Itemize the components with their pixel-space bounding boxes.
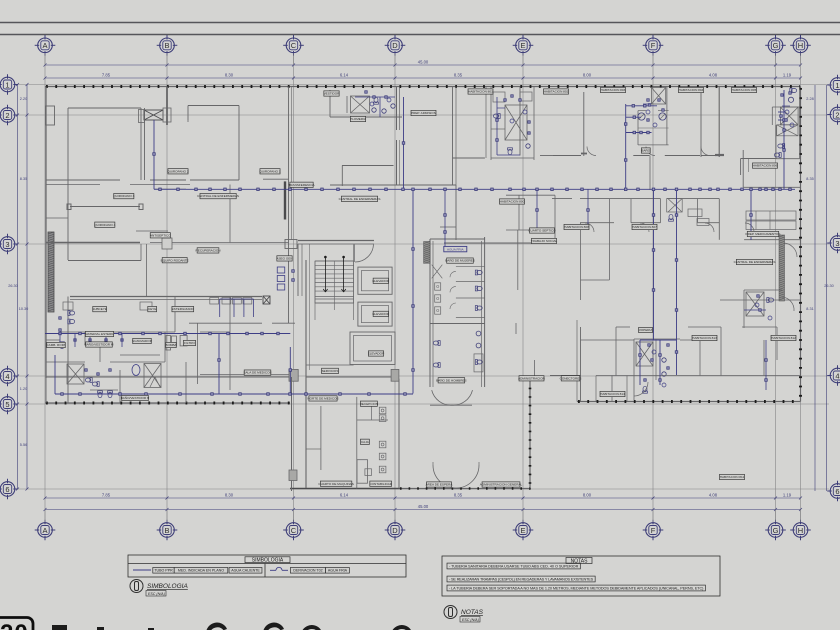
svg-text:8.30: 8.30	[225, 493, 234, 498]
svg-text:QUIROFANO 1: QUIROFANO 1	[259, 169, 280, 173]
row4 walls right	[550, 375, 581, 377]
lower right rooms outlines	[608, 199, 610, 280]
svg-text:AGUA CALIENTE: AGUA CALIENTE	[231, 569, 260, 573]
room label CONTABILIDAD	[369, 481, 392, 486]
grid bubble B top	[157, 35, 178, 56]
svg-text:QUIROFANO 3: QUIROFANO 3	[113, 194, 134, 198]
svg-text:TRABAJO SOCIAL: TRABAJO SOCIAL	[531, 239, 558, 243]
room label RECUPERACION	[196, 248, 221, 253]
svg-text:20: 20	[0, 620, 29, 630]
room label TRANSFERENCIA	[288, 182, 315, 187]
svg-text:HABITACION 802: HABITACION 802	[544, 90, 569, 94]
room label AREA DE ESPERA	[426, 482, 454, 487]
vestidor / plomeria rooms	[329, 90, 331, 117]
svg-text:A: A	[42, 526, 47, 535]
corridor walls center	[298, 240, 374, 242]
room label BAÑO/VESTIDOR M	[85, 342, 114, 348]
showers	[67, 364, 84, 384]
grid bubble E top	[513, 35, 534, 56]
habitacion 800 room	[506, 194, 555, 196]
reception chairs	[379, 407, 386, 414]
svg-text:1.19: 1.19	[783, 493, 792, 498]
svg-text:45.00: 45.00	[418, 60, 429, 65]
svg-text:F: F	[651, 526, 656, 535]
svg-text:6: 6	[5, 485, 9, 494]
svg-text:SALA DE MEDICOS: SALA DE MEDICOS	[243, 371, 271, 375]
room label HABITACION 805	[732, 87, 757, 92]
svg-text:BAÑO DE MUJERES: BAÑO DE MUJERES	[445, 258, 475, 263]
svg-text:ADMINISTRACION GENERAL: ADMINISTRACION GENERAL	[480, 483, 523, 487]
svg-text:HABITACION 800: HABITACION 800	[500, 200, 525, 204]
men stalls	[433, 341, 440, 346]
top border line 1	[0, 22, 840, 24]
right wing top rooms south walls	[540, 155, 552, 157]
svg-text:F: F	[651, 41, 656, 50]
vestibule walls	[452, 87, 454, 186]
room label VESTIDOR	[324, 91, 341, 96]
svg-text:EQUIPO RODANTE: EQUIPO RODANTE	[161, 258, 189, 262]
svg-text:CEYE: CEYE	[148, 307, 156, 311]
svg-text:SIMBOLOGIA: SIMBOLOGIA	[252, 558, 284, 564]
hatched wall right wing	[779, 235, 785, 301]
grid bubble A top	[35, 35, 56, 56]
right wing rooms north wall y=198.6	[552, 198, 572, 200]
door arcs at bottom of toilets	[432, 390, 452, 405]
grid bubble row 4 left	[0, 366, 18, 387]
room label TRABAJO SOCIAL	[531, 238, 558, 243]
stall door arcs	[450, 271, 456, 277]
room label BAÑO DE MUJERES	[445, 258, 475, 264]
room label CEYE	[148, 306, 157, 311]
room label BOMBA	[165, 342, 177, 347]
extra bathroom blue bits	[370, 98, 794, 387]
svg-text:2.20: 2.20	[20, 97, 27, 101]
grid bubble row 2 right	[827, 104, 840, 125]
room label FILTRO	[183, 340, 195, 345]
title badge bottom-left	[0, 618, 33, 630]
toilet block walls	[429, 239, 431, 387]
svg-text:SUBCEYE: SUBCEYE	[92, 307, 107, 311]
svg-text:QUIROFANO 2: QUIROFANO 2	[167, 169, 188, 173]
room label HABITACION 811	[720, 474, 745, 479]
svg-text:CUARTO DE MAQUINAS: CUARTO DE MAQUINAS	[318, 482, 353, 486]
svg-text:2.28: 2.28	[806, 97, 813, 101]
room label QUIROFANO 3	[113, 193, 134, 198]
svg-text:E: E	[520, 41, 525, 50]
riser symbols	[153, 153, 156, 156]
locker row	[210, 298, 219, 305]
room label QUIROFANO 1	[259, 169, 280, 174]
left wing: quirofano block	[46, 106, 55, 125]
svg-text:4: 4	[5, 372, 9, 381]
pipe symbols along corridor	[159, 188, 162, 191]
svg-text:CUARTO SEPTICO: CUARTO SEPTICO	[528, 229, 556, 233]
room label HABITACION 813	[692, 335, 717, 340]
svg-text:45.00: 45.00	[418, 504, 429, 509]
svg-text:CAMB. ROPA: CAMB. ROPA	[46, 343, 66, 347]
grid bubble E bottom	[513, 520, 534, 541]
grid bubble row 6 right	[827, 481, 840, 502]
svg-text:8.30: 8.30	[225, 73, 234, 78]
left wall hatched strip	[48, 232, 54, 312]
807/808 bathroom bits	[667, 199, 683, 212]
grid bubble row 1 right	[827, 75, 840, 96]
svg-text:C: C	[291, 526, 297, 535]
svg-text:QUIROFANO 4: QUIROFANO 4	[94, 223, 115, 227]
svg-text:TRANSFERENCIA: TRANSFERENCIA	[288, 183, 315, 187]
svg-text:HABITACION 806: HABITACION 806	[753, 164, 778, 168]
grid bubble row 1 left	[0, 74, 18, 95]
svg-text:2: 2	[835, 110, 839, 119]
admin double door arcs	[433, 465, 456, 488]
svg-text:ELEVADOR: ELEVADOR	[368, 352, 385, 356]
svg-text:CENTRAL DE ENFERMERAS: CENTRAL DE ENFERMERAS	[734, 260, 776, 264]
svg-text:HABITACION 807: HABITACION 807	[632, 225, 657, 229]
svg-text:4: 4	[835, 371, 839, 380]
svg-text:2: 2	[5, 111, 9, 120]
room label SUBCEYE	[92, 306, 107, 311]
svg-text:HABITACION 805: HABITACION 805	[732, 88, 757, 92]
svg-text:8.35: 8.35	[20, 177, 27, 181]
room label NORTE DE MEDICOS	[307, 396, 338, 401]
room label ROPERIA	[639, 327, 654, 332]
svg-text:ESTERILIZADO: ESTERILIZADO	[172, 307, 195, 311]
svg-text:CENTRAL DE ENFERMERAS: CENTRAL DE ENFERMERAS	[197, 194, 239, 198]
svg-text:1: 1	[5, 80, 9, 89]
room label SALA DE MEDICOS	[243, 370, 271, 375]
svg-text:BOMBA: BOMBA	[165, 343, 177, 347]
room label CAJA	[360, 439, 369, 444]
svg-text:HABITACION 803: HABITACION 803	[601, 88, 626, 92]
stair arrows	[323, 256, 346, 292]
svg-text:3: 3	[5, 240, 9, 249]
room label HABITACION 812	[771, 335, 796, 340]
svg-text:BAÑO/VESTIDOR H: BAÑO/VESTIDOR H	[121, 395, 150, 400]
svg-text:ASEO GEN: ASEO GEN	[276, 257, 292, 261]
grid bubble G top	[765, 35, 786, 56]
svg-text:RECUPERACION: RECUPERACION	[196, 249, 221, 253]
svg-text:H: H	[798, 41, 803, 50]
left wing bottom wall (row5, ticked)	[45, 402, 290, 404]
center block west wall	[291, 377, 293, 491]
grid bubble B bottom	[157, 520, 178, 541]
door arc into stairs	[355, 245, 374, 263]
giant title glyph tops (cut off)	[52, 623, 411, 630]
main corridor pipe	[45, 90, 795, 394]
hab 805/806 bathroom	[771, 107, 773, 125]
svg-text:HABITACION 814: HABITACION 814	[600, 392, 625, 396]
right wing room dividers	[583, 92, 585, 156]
svg-text:DERIVACION T02: DERIVACION T02	[293, 569, 322, 573]
svg-text:SIMBOLOGIA: SIMBOLOGIA	[147, 583, 188, 590]
room label CAMB. ROPA	[46, 342, 66, 347]
svg-text:AREA DE ESPERA: AREA DE ESPERA	[426, 483, 454, 487]
svg-text:6.14: 6.14	[340, 493, 349, 498]
svg-text:5: 5	[5, 400, 9, 409]
svg-text:BAÑO: BAÑO	[641, 148, 650, 153]
right wing lower room dividers y290-401	[580, 327, 582, 402]
svg-text:RECEPCION: RECEPCION	[360, 402, 378, 406]
svg-text:G: G	[773, 41, 779, 50]
room label BAÑO/VESTIDOR H	[121, 395, 150, 401]
elevator labels	[372, 278, 389, 283]
svg-text:HABITACION 811: HABITACION 811	[720, 475, 745, 479]
right wing bottom wall (row5, ticked)	[577, 401, 801, 403]
svg-text:ELEVADOR: ELEVADOR	[372, 312, 389, 316]
svg-text:3: 3	[835, 239, 839, 248]
room label CONECTORES	[560, 376, 582, 381]
service band south wall	[189, 322, 262, 324]
svg-text:26.30: 26.30	[824, 284, 834, 288]
patient room door arcs top band	[587, 147, 596, 156]
grid bubble row 5 left	[0, 394, 18, 415]
grid bubble F bottom	[643, 520, 664, 541]
service band north wall	[70, 296, 262, 298]
svg-text:CENTRAL DE ENFERMERAS: CENTRAL DE ENFERMERAS	[339, 197, 381, 201]
svg-text:TUBO PPR: TUBO PPR	[154, 569, 173, 573]
svg-text:ELEVADOR: ELEVADOR	[372, 279, 389, 283]
svg-text:VESTIDOR: VESTIDOR	[324, 92, 341, 96]
svg-text:AGUA FRIA: AGUA FRIA	[447, 248, 464, 252]
svg-text:- SE REALIZARAN TRAMPAS (CESPO: - SE REALIZARAN TRAMPAS (CESPOL) EN REGA…	[449, 578, 594, 582]
women stalls	[432, 265, 485, 318]
room label HABITACION 814	[600, 391, 625, 396]
room label ADMINISTRACION GENERAL	[480, 482, 523, 487]
room label ANTISEPTICO	[150, 233, 171, 238]
hab 801/802 bathroom	[490, 87, 492, 161]
right lower bathroom cluster (813/814)	[634, 338, 680, 340]
servicios room	[306, 364, 354, 366]
svg-text:E: E	[520, 526, 525, 535]
room label CENTRAL DE ENFERMERAS	[734, 259, 776, 264]
svg-text:7.85: 7.85	[102, 73, 111, 78]
room label CENTRAL DE ENFERMERAS	[339, 196, 381, 201]
svg-text:MED. INDICADA EN PLANO: MED. INDICADA EN PLANO	[178, 569, 224, 573]
svg-text:CAJA: CAJA	[361, 440, 370, 444]
room label HABITACION 807	[632, 224, 657, 229]
room label SUAVIZADOR	[132, 338, 153, 343]
svg-text:HABITACION 801: HABITACION 801	[468, 90, 493, 94]
svg-text:8.35: 8.35	[454, 493, 463, 498]
elevators	[358, 267, 392, 294]
grid bubble G bottom	[765, 520, 786, 541]
pipe symbols left band	[59, 332, 62, 335]
svg-text:MATERIAL ESTERIL: MATERIAL ESTERIL	[85, 332, 114, 336]
caja desk	[357, 460, 368, 484]
grid bubble A bottom	[35, 520, 56, 541]
stairwell	[315, 245, 354, 321]
right wing inner wall y=222.7	[580, 222, 614, 224]
svg-text:1: 1	[835, 81, 839, 90]
room label HABITACION 802	[544, 89, 569, 94]
svg-text:PREP. MEDICAMENTOS: PREP. MEDICAMENTOS	[746, 232, 781, 236]
room label HABITACION 804	[679, 87, 704, 92]
svg-text:NORTE DE MEDICOS: NORTE DE MEDICOS	[307, 397, 338, 401]
svg-text:- LA TUBERIA DEBERA SER SOPORT: - LA TUBERIA DEBERA SER SOPORTADA A NO M…	[449, 587, 704, 591]
room label BAÑO	[641, 148, 650, 154]
room label CUARTO SEPTICO	[528, 228, 556, 233]
left exterior wall	[45, 87, 47, 379]
secondary pipes	[220, 97, 766, 390]
grid bubble D bottom	[385, 520, 406, 541]
room 801 divider	[519, 87, 521, 156]
center block bottom wall	[290, 488, 400, 490]
svg-text:1.20: 1.20	[20, 387, 27, 391]
svg-text:B: B	[164, 526, 169, 535]
room label RECEPCION	[360, 401, 378, 406]
notas marker	[444, 606, 457, 619]
room label SERVICIOS	[322, 368, 339, 373]
grid bubble F top	[643, 35, 664, 56]
room label PREP. MEDICAMENTOS	[746, 231, 781, 236]
blue agua label	[444, 246, 467, 251]
room label QUIROFANO 2	[167, 169, 188, 174]
row grid lines	[16, 85, 829, 490]
divider men/women	[430, 323, 485, 325]
svg-text:ESC (N/A): ESC (N/A)	[462, 618, 479, 622]
center-east wall vertical ticked	[529, 378, 531, 489]
room label BAÑO DE HOMBRES	[436, 377, 466, 383]
grid bubble H bottom	[790, 520, 811, 541]
svg-text:BAÑO DE HOMBRES: BAÑO DE HOMBRES	[436, 377, 466, 382]
grid bubble C bottom	[283, 520, 304, 541]
dimension values	[8, 60, 834, 510]
right mid bathroom (815)	[744, 289, 782, 291]
svg-text:1.19: 1.19	[783, 73, 792, 78]
room label PREP. ADMISION	[411, 110, 436, 115]
svg-text:CONTABILIDAD: CONTABILIDAD	[369, 482, 392, 486]
anteroom walls	[342, 165, 394, 167]
svg-text:B: B	[164, 41, 169, 50]
dimension chains	[16, 64, 827, 512]
svg-text:HABITACION 808: HABITACION 808	[564, 225, 589, 229]
medical gases cluster	[277, 267, 285, 273]
room label PLOMERIA	[350, 116, 367, 121]
svg-text:HABITACION 812: HABITACION 812	[771, 336, 796, 340]
room label ADMINISTRACION	[518, 376, 545, 381]
svg-text:8.35: 8.35	[806, 177, 813, 181]
corridor south (center-right) walls	[455, 185, 457, 240]
top border line 2	[0, 34, 840, 36]
bottom row north walls right wing	[616, 326, 630, 328]
room label CUARTO DE MAQUINAS	[318, 481, 353, 486]
svg-text:HABITACION 813: HABITACION 813	[692, 336, 717, 340]
svg-text:PREP. ADMISION: PREP. ADMISION	[411, 111, 436, 115]
right exterior wall (ticked)	[800, 87, 802, 402]
room label HABITACION 800	[500, 199, 525, 204]
room label CENTRAL DE ENFERMERAS	[197, 193, 239, 198]
column grid lines	[45, 53, 801, 522]
svg-text:6: 6	[835, 487, 839, 496]
svg-text:ESC (N/A): ESC (N/A)	[148, 592, 165, 596]
small rooms ropa/filtro	[688, 209, 702, 217]
water equipment	[166, 336, 171, 351]
grid bubble row 4 right	[827, 365, 840, 386]
svg-text:FILTRO: FILTRO	[184, 341, 195, 345]
room label ESTERILIZADO	[172, 306, 195, 311]
svg-text:- TUBERIA SANITARIA DEBERA USA: - TUBERIA SANITARIA DEBERA USARSE TUBO A…	[449, 565, 579, 569]
svg-text:26.30: 26.30	[8, 284, 18, 288]
prep medicamentos counters	[746, 211, 796, 220]
svg-text:8.00: 8.00	[583, 493, 592, 498]
svg-text:PLOMERIA: PLOMERIA	[350, 117, 367, 121]
room label HABITACION 801	[468, 89, 493, 94]
reception room	[356, 397, 358, 489]
room label EQUIPO RODANTE	[161, 258, 189, 263]
grid bubble H top	[790, 35, 811, 56]
room 806 walls	[649, 156, 651, 191]
svg-text:BAÑO/VESTIDOR M: BAÑO/VESTIDOR M	[85, 342, 114, 347]
top exterior wall	[45, 86, 801, 88]
corridor wall at E	[517, 230, 519, 290]
notas legend box	[442, 556, 720, 596]
svg-text:4.08: 4.08	[709, 73, 718, 78]
room label MATERIAL ESTERIL	[85, 331, 114, 336]
lavatory row left	[60, 334, 122, 348]
svg-text:8.00: 8.00	[583, 73, 592, 78]
corridor north wall (center)	[330, 184, 456, 186]
room label ASEO GEN	[276, 256, 292, 261]
svg-text:CONECTORES: CONECTORES	[560, 376, 582, 380]
grid bubble row 6 left	[0, 479, 18, 500]
hab 803/804 bathroom	[637, 111, 639, 145]
blue fixture cluster boxes (bathrooms)	[373, 96, 375, 98]
grid bubble C top	[283, 35, 304, 56]
grid bubble D top	[385, 35, 406, 56]
svg-text:7.85: 7.85	[102, 493, 111, 498]
bone divider	[67, 204, 143, 210]
svg-text:H: H	[798, 526, 803, 535]
simbologia legend box	[128, 555, 406, 577]
svg-text:10.30: 10.30	[19, 307, 29, 311]
derivation symbol	[270, 567, 288, 570]
svg-text:ROPERIA: ROPERIA	[639, 328, 654, 332]
svg-text:5.56: 5.56	[20, 443, 27, 447]
transfer hatch box	[144, 110, 163, 120]
left wing row4 wall	[46, 376, 290, 378]
svg-text:D: D	[392, 526, 398, 535]
room label HABITACION 808	[564, 224, 589, 229]
grid bubble row 3 right	[827, 233, 840, 254]
svg-text:ADMINISTRACION: ADMINISTRACION	[518, 376, 545, 380]
svg-text:4.08: 4.08	[709, 493, 718, 498]
room label HABITACION 806	[753, 163, 778, 168]
svg-text:6.14: 6.14	[340, 73, 349, 78]
svg-text:HABITACION 804: HABITACION 804	[679, 88, 704, 92]
svg-text:SERVICIOS: SERVICIOS	[322, 369, 339, 373]
svg-text:D: D	[392, 41, 398, 50]
grid bubble row 3 left	[0, 234, 18, 255]
room label QUIROFANO 4	[94, 222, 115, 227]
svg-text:8.35: 8.35	[454, 73, 463, 78]
svg-text:NOTAS: NOTAS	[461, 609, 484, 616]
svg-text:SUAVIZADOR: SUAVIZADOR	[132, 339, 153, 343]
simbologia marker	[130, 580, 143, 593]
room label HABITACION 803	[601, 87, 626, 92]
grid bubble row 2 left	[0, 105, 18, 126]
hatched wall at toilet block nw	[424, 242, 430, 264]
svg-text:ANTISEPTICO: ANTISEPTICO	[150, 233, 171, 237]
svg-text:A: A	[42, 41, 47, 50]
svg-text:8.31: 8.31	[806, 307, 813, 311]
svg-text:C: C	[291, 41, 297, 50]
svg-text:AGUA FRIA: AGUA FRIA	[328, 569, 348, 573]
svg-text:G: G	[773, 526, 779, 535]
